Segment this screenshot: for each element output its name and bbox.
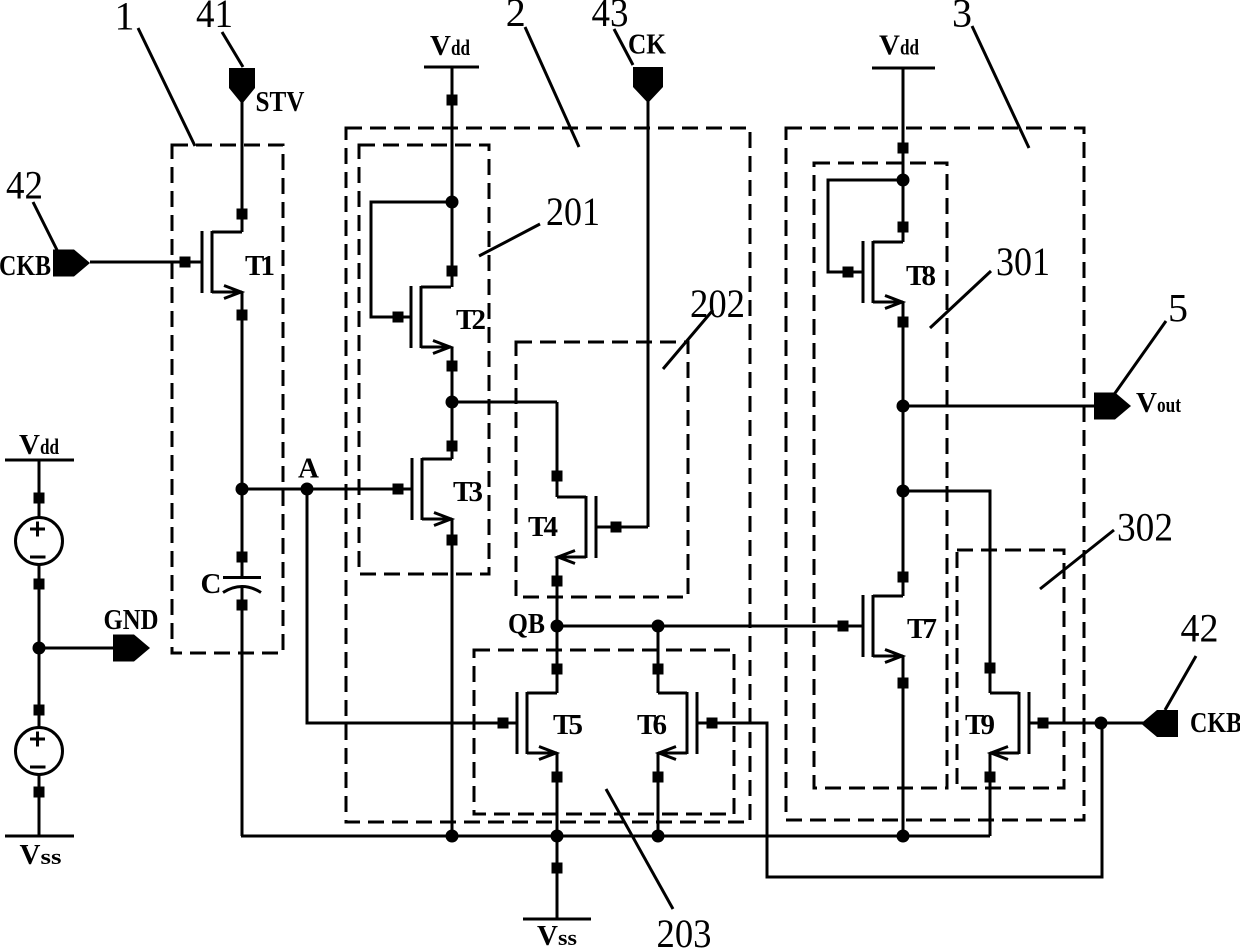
pin square on T2 gate (393, 312, 404, 323)
wire T5 source to bottom rail (556, 753, 559, 836)
svg-text:41: 41 (196, 0, 233, 36)
pointer line for label 41 (222, 32, 243, 67)
GND output arrow (113, 635, 150, 662)
junction to T9 drain (897, 485, 910, 498)
transistor T6 (658, 692, 697, 760)
pointer line for label 203 (606, 789, 673, 909)
pin square on T6 source (653, 772, 664, 783)
pin square on T9 drain (985, 663, 996, 674)
svg-text:T5: T5 (553, 709, 583, 741)
dashed box 202 (516, 342, 688, 597)
wire node A to capacitor (241, 489, 244, 577)
wire T8 source to T7 drain (902, 302, 905, 596)
dashed box 201 (359, 145, 489, 574)
voltage source V2 (16, 728, 63, 775)
wire node A to T5 gate (307, 489, 517, 723)
wire Vdd to T8 drain (902, 68, 905, 242)
junction QB to T6 drain (652, 620, 665, 633)
junction T2 gate feedback (446, 196, 459, 209)
junction bottom rail / T6 source (652, 830, 665, 843)
svg-text:CKB: CKB (1190, 707, 1240, 739)
pin square on T8 gate (843, 267, 854, 278)
svg-text:GND: GND (104, 604, 159, 636)
pin square on STV wire (237, 209, 248, 220)
svg-text:T7: T7 (907, 613, 937, 645)
wire T6 source to bottom rail (657, 753, 660, 836)
svg-text:203: 203 (657, 911, 712, 949)
pin square above capacitor C (237, 552, 248, 563)
svg-text:Vdd: Vdd (19, 429, 59, 461)
pointer line for label 2 (525, 27, 579, 147)
pin square on T7 gate wire (838, 621, 849, 632)
node Vout junction (897, 400, 910, 413)
pin square on T4 drain (552, 471, 563, 482)
pin square on T6 drain (653, 664, 664, 675)
wire Vdd bar to source V1 (38, 460, 41, 518)
pin square above source V2 (34, 705, 45, 716)
pointer line for label 43 (614, 29, 633, 65)
wire junction to T4 drain top (452, 401, 557, 404)
pin square on T5 source (552, 772, 563, 783)
node QB junction (551, 620, 564, 633)
svg-text:A: A (298, 453, 319, 485)
svg-text:T8: T8 (906, 260, 936, 292)
junction bottom rail / T7 source (897, 830, 910, 843)
pointer line for label 42 left (33, 202, 57, 250)
CKB input arrow 42 (left) (53, 250, 90, 277)
pin square below source V1 (34, 579, 45, 590)
wire junction to T9 drain (903, 491, 990, 693)
pin square on T2 drain (447, 266, 458, 277)
power symbol Vdd (left rail) (5, 459, 74, 462)
wire QB to T5 drain (556, 626, 559, 693)
wire Vout (903, 405, 1097, 408)
junction CKB net (1095, 717, 1108, 730)
svg-text:42: 42 (6, 163, 43, 208)
wire T1 source to node A (241, 292, 244, 489)
svg-text:T4: T4 (528, 511, 558, 543)
pointer line for label 5 (1113, 321, 1166, 396)
junction T8 gate feedback (897, 174, 910, 187)
junction to T4 drain (446, 396, 459, 409)
pointer line for label 3 (972, 26, 1029, 148)
svg-text:Vout: Vout (1136, 387, 1181, 419)
pin square on T1 gate wire (180, 257, 191, 268)
pin square on T4 source (552, 576, 563, 587)
dashed box 1 (172, 145, 283, 653)
pin square on T5 gate wire (498, 718, 509, 729)
wire CKB to T1 gate (90, 261, 202, 264)
svg-text:301: 301 (996, 239, 1050, 284)
junction T1/capacitor/node A wire (236, 483, 249, 496)
pin square on T3 gate wire (393, 484, 404, 495)
svg-text:43: 43 (592, 0, 629, 35)
svg-text:T3: T3 (453, 476, 483, 508)
transistor T2 (411, 286, 451, 354)
node A junction (301, 483, 314, 496)
junction bottom rail / T5 source (551, 830, 564, 843)
wire node A to T3 gate (242, 488, 412, 491)
dashed box 3 (786, 128, 1084, 820)
pin square on T7 drain (898, 572, 909, 583)
wire QB to T6 drain (657, 626, 660, 693)
svg-text:STV: STV (256, 86, 305, 118)
pin square on Vdd wire (box 3) (898, 143, 909, 154)
wire T3 source to bottom rail (451, 519, 454, 836)
pin square on Vss stub (552, 863, 563, 874)
pin square on Vdd wire (box 2) (447, 95, 458, 106)
bottom Vss rail wire (241, 835, 990, 838)
wire T4 source to node QB (556, 557, 559, 626)
svg-text:3: 3 (952, 0, 972, 36)
wire CK to T4 gate (647, 99, 650, 527)
dashed box 2 (346, 128, 750, 822)
voltage source V1 (16, 518, 63, 565)
svg-text:CKB: CKB (0, 250, 51, 282)
pin square on T3 source (447, 535, 458, 546)
pin square on T4 gate (611, 522, 622, 533)
CKB input arrow 42 (right) (1141, 710, 1178, 737)
svg-text:302: 302 (1117, 505, 1173, 550)
wire T2 gate feedback (371, 202, 452, 317)
power symbol Vdd (box 3) (872, 67, 935, 70)
svg-text:201: 201 (546, 189, 600, 234)
svg-text:2: 2 (506, 0, 526, 35)
capacitor C (223, 578, 261, 593)
pin square below capacitor C (237, 600, 248, 611)
transistor T7 (863, 595, 903, 663)
transistor T5 (517, 692, 557, 760)
svg-text:QB: QB (508, 608, 545, 640)
wire T8 gate feedback (828, 180, 903, 272)
pin square on T9 gate (1038, 718, 1049, 729)
wire bottom rail to Vss symbol (556, 836, 559, 919)
wire to GND arrow (39, 647, 117, 650)
pin square on T8 drain (898, 222, 909, 233)
pin square below source V2 (34, 787, 45, 798)
junction bottom rail / T3 source (446, 830, 459, 843)
transistor T3 (412, 458, 452, 526)
svg-text:C: C (201, 568, 222, 600)
junction GND (33, 642, 46, 655)
wire Vdd to T2 drain (451, 67, 454, 287)
pointer line for label 42 right (1165, 656, 1196, 710)
STV input arrow 41 (229, 68, 255, 104)
Vout output arrow 5 (1094, 393, 1131, 420)
wire node QB to T7 gate (557, 625, 863, 628)
wire source V2 to Vss bar (38, 774, 41, 836)
pointer line for label 202 (663, 310, 713, 369)
pin square on T2 source (447, 361, 458, 372)
svg-text:T1: T1 (245, 250, 275, 282)
transistor T1 (202, 231, 242, 299)
wire T7 source to bottom rail (902, 656, 905, 836)
pin square above source V1 (34, 493, 45, 504)
svg-text:Vss: Vss (20, 839, 62, 871)
wire T2 source to T3 drain (451, 347, 454, 459)
wire T6 gate to CKB net (697, 723, 1102, 877)
transistor T4 (557, 496, 596, 564)
pin square on T1 source (237, 310, 248, 321)
pin square on T3 drain (447, 441, 458, 452)
svg-text:Vdd: Vdd (879, 30, 919, 62)
power symbol Vss (bottom) (523, 918, 591, 921)
wire T9 source to bottom rail (989, 753, 992, 836)
wire source V1 to source V2 (38, 564, 41, 728)
pointer line for label 201 (479, 224, 540, 256)
svg-text:T9: T9 (965, 709, 995, 741)
CK input arrow 43 (633, 67, 663, 103)
power symbol Vss (left rail) (5, 835, 74, 838)
svg-text:1: 1 (115, 0, 135, 39)
svg-text:Vss: Vss (537, 920, 577, 949)
pin square on T5 drain (552, 664, 563, 675)
pin square on T6 gate (707, 718, 718, 729)
pointer line for label 301 (930, 271, 991, 328)
dashed box 203 (474, 650, 734, 814)
wire capacitor to bottom rail (241, 588, 244, 836)
pointer line for label 1 (138, 28, 195, 146)
svg-text:T2: T2 (456, 304, 486, 336)
transistor T9 (990, 692, 1029, 760)
pointer line for label 302 (1040, 530, 1114, 589)
svg-text:5: 5 (1168, 286, 1188, 331)
power symbol Vdd (box 2) (424, 66, 479, 69)
svg-text:T6: T6 (637, 709, 667, 741)
pin square on T8 source (898, 317, 909, 328)
wire T4 gate to CK (596, 526, 648, 529)
dashed box 302 (957, 550, 1064, 788)
wire STV to T1 drain (241, 100, 244, 232)
wire down to T4 drain (556, 402, 559, 497)
dashed box 301 (814, 163, 947, 788)
svg-text:CK: CK (628, 29, 666, 61)
pin square on T7 source (898, 678, 909, 689)
svg-text:Vdd: Vdd (430, 30, 470, 62)
svg-text:202: 202 (690, 281, 745, 326)
wire T9 gate to CKB input (1029, 722, 1144, 725)
pin square on T9 source (985, 772, 996, 783)
svg-text:42: 42 (1181, 606, 1219, 651)
transistor T8 (863, 241, 903, 309)
